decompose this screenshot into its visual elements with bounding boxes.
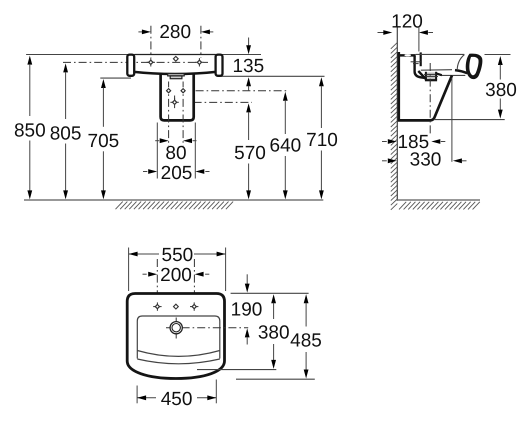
svg-text:705: 705 [88, 131, 120, 152]
svg-text:450: 450 [161, 389, 193, 410]
svg-text:330: 330 [410, 150, 442, 171]
svg-text:200: 200 [160, 265, 192, 286]
svg-text:640: 640 [270, 135, 302, 156]
svg-text:135: 135 [232, 56, 264, 77]
svg-text:380: 380 [485, 80, 517, 101]
svg-text:120: 120 [391, 11, 423, 32]
svg-text:485: 485 [290, 330, 322, 351]
svg-text:205: 205 [161, 163, 193, 184]
svg-text:570: 570 [234, 143, 266, 164]
svg-text:80: 80 [165, 143, 186, 164]
svg-text:805: 805 [50, 123, 82, 144]
svg-text:550: 550 [162, 245, 194, 266]
svg-text:190: 190 [231, 299, 263, 320]
svg-text:850: 850 [14, 120, 46, 141]
svg-text:710: 710 [306, 130, 338, 151]
svg-text:280: 280 [159, 22, 191, 43]
svg-text:380: 380 [258, 323, 290, 344]
